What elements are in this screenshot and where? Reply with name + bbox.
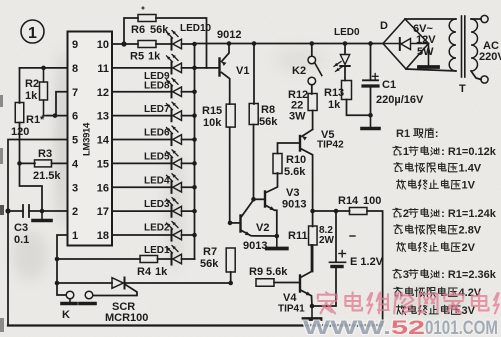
wire pin 17 row: [112, 210, 172, 212]
note line 6: discharge end voltage 2V: [397, 242, 406, 251]
wire pin8 row: [20, 67, 68, 69]
svg-text:12: 12: [97, 87, 109, 99]
ground at V4 emitter: [311, 306, 313, 319]
node V1 emitter on rail: [227, 41, 232, 46]
svg-text:WWW.: WWW.: [303, 318, 391, 337]
wire pin 18 row: [112, 234, 172, 236]
transistor V5 TIP42 base bar: [299, 136, 301, 151]
transformer T secondary winding (right): [471, 19, 478, 71]
wire SCR anode: [57, 282, 112, 284]
wire pin 11 row: [112, 67, 172, 69]
note line 9: discharge end voltage 3V: [397, 305, 406, 314]
capacitor C3 body: [29, 210, 68, 212]
wire pin7 bracket to pin6: [56, 92, 68, 116]
svg-text:D: D: [380, 20, 388, 32]
node V4 emitter / battery negative: [310, 304, 315, 309]
svg-text:9: 9: [72, 39, 78, 51]
svg-text:5.6k: 5.6k: [284, 166, 306, 178]
resistor R12 body: [311, 85, 313, 94]
svg-text:LED8: LED8: [144, 81, 170, 92]
LED LED6: [171, 134, 173, 145]
switch K actuator bar: [69, 299, 71, 303]
wire pin6 row: [47, 115, 68, 117]
svg-text:LED6: LED6: [144, 128, 170, 139]
svg-text:R15: R15: [202, 105, 222, 117]
wire R10 top to V5 base: [278, 143, 301, 154]
node bus LED10: [192, 42, 197, 47]
wire pin5 row to left rail: [8, 140, 68, 326]
node bus LED6: [192, 137, 197, 142]
node R8/V3 base/V2 collector: [251, 197, 256, 202]
node bus LED3: [192, 209, 197, 214]
note line 3: discharge end voltage 1V: [397, 180, 406, 189]
LED5 light arrows: [166, 151, 172, 157]
resistor R13 body: [342, 81, 352, 100]
transistor V3 emitter: [266, 206, 277, 237]
svg-text:R4: R4: [137, 266, 152, 278]
svg-text:10: 10: [97, 39, 109, 51]
wire R13 bottom to C1 bottom node: [347, 100, 371, 116]
note line 5: charge limit voltage 2.8V: [394, 225, 403, 234]
node pin8/R2 junction: [41, 66, 46, 71]
svg-text:LED3: LED3: [144, 199, 170, 210]
top supply rail wire: [195, 43, 384, 45]
svg-text:5W: 5W: [417, 46, 434, 58]
svg-text:2: 2: [72, 206, 78, 218]
LED0 light arrows: [334, 62, 341, 67]
svg-text:9013: 9013: [282, 199, 306, 211]
svg-text:21.5k: 21.5k: [33, 170, 61, 182]
LED LED2: [171, 229, 173, 240]
svg-text:2: 2: [403, 208, 409, 220]
wire LED1 row: [57, 258, 140, 260]
resistor R7 body: [226, 248, 235, 272]
svg-text:56k: 56k: [259, 116, 278, 128]
svg-text:LED4: LED4: [144, 176, 170, 187]
svg-text:11: 11: [97, 63, 109, 75]
figure number 1 (circled): [21, 20, 44, 43]
LED LED3: [171, 206, 173, 217]
svg-text:56k: 56k: [150, 24, 169, 36]
svg-text:: R1=0.12k: : R1=0.12k: [441, 146, 497, 158]
transistor V1 collector: [222, 73, 230, 105]
node bus LED9: [192, 66, 197, 71]
node pin10/R6 junction: [121, 41, 126, 46]
svg-text:9012: 9012: [217, 29, 241, 41]
LED0 body (vertical, pointing down): [344, 44, 346, 55]
svg-text:R8: R8: [261, 104, 275, 116]
LED3 light arrows: [166, 199, 172, 205]
svg-text:3W: 3W: [289, 111, 306, 123]
wire pin 12 row: [112, 91, 172, 93]
svg-text:V3: V3: [286, 187, 299, 199]
svg-text:10k: 10k: [203, 117, 222, 129]
svg-text:LED7: LED7: [144, 104, 170, 115]
transistor V1 emitter (from rail): [222, 44, 230, 62]
wire pin 10 row: [112, 43, 138, 45]
svg-text:K: K: [62, 309, 70, 321]
node bus LED8: [192, 89, 197, 94]
node bus LED2: [192, 233, 197, 238]
node bus LED5: [192, 161, 197, 166]
LED LED7: [171, 110, 173, 121]
resistor R11 body: [312, 211, 314, 227]
transistor V4 TIP41 base bar: [299, 276, 301, 292]
watermark WWW.520101.COM: [303, 318, 498, 337]
note line 4: charge 2 cells: [393, 208, 402, 217]
svg-text:E 1.2V: E 1.2V: [350, 256, 384, 268]
svg-text:8: 8: [72, 63, 78, 75]
svg-text:0.1: 0.1: [14, 234, 29, 246]
watermark chinese row (pink): [318, 292, 337, 313]
svg-text:17: 17: [97, 206, 109, 218]
node C3/ground junction: [40, 209, 45, 214]
node pin1/LED1 row: [55, 257, 60, 262]
svg-text:LED5: LED5: [144, 152, 170, 163]
svg-text:V1: V1: [236, 65, 249, 77]
transistor V3 9013 base bar: [264, 192, 266, 207]
wire pin 14 row: [112, 139, 172, 141]
resistor R2 body: [43, 68, 45, 82]
svg-text:5: 5: [72, 135, 78, 147]
svg-text:R10: R10: [286, 154, 306, 166]
LED9 light arrows: [166, 56, 172, 62]
resistor R5 body: [138, 41, 156, 48]
LED10 light arrows: [166, 32, 172, 38]
LED LED5: [171, 158, 173, 169]
svg-text:R7: R7: [203, 246, 217, 258]
LED6 light arrows: [166, 127, 172, 133]
transformer terminal bottom: [471, 71, 481, 80]
wire pin1 column down to SCR line: [56, 259, 58, 283]
svg-text:TIP42: TIP42: [317, 140, 344, 151]
svg-text:2V: 2V: [462, 242, 476, 254]
svg-text:R9: R9: [249, 266, 263, 278]
SCR gate wire: [93, 285, 137, 296]
svg-text:: R1=1.24k: : R1=1.24k: [441, 208, 497, 220]
svg-text:T: T: [459, 83, 466, 95]
resistor R15 body: [226, 104, 235, 127]
ground at V2/V3 emitters: [276, 236, 278, 249]
svg-text:4: 4: [72, 158, 79, 170]
svg-text:R6: R6: [131, 24, 145, 36]
transistor V2 9013 base bar: [239, 216, 241, 232]
LED1 light arrows: [166, 247, 172, 253]
node SCR line left: [55, 281, 60, 286]
wire R3 junction down to C3 node: [20, 163, 43, 211]
LED bus wire: [194, 44, 196, 260]
node R7/SCR/R9 junction: [228, 281, 233, 286]
svg-text:C1: C1: [382, 79, 396, 91]
svg-text:7: 7: [72, 87, 78, 99]
svg-text:LED2: LED2: [144, 223, 170, 234]
svg-text:2W: 2W: [319, 235, 335, 246]
resistor R6 body and branch wire: [124, 18, 138, 44]
svg-text:9013: 9013: [243, 240, 267, 252]
svg-text:1: 1: [403, 146, 409, 158]
battery E body: [335, 211, 337, 262]
svg-text:LED0: LED0: [334, 27, 360, 38]
transformer T primary winding (left): [449, 19, 456, 71]
resistor R10 body: [273, 154, 282, 174]
bridge rectifier D diamond: [383, 19, 429, 69]
svg-text:12V: 12V: [416, 34, 436, 46]
svg-text:1V: 1V: [462, 179, 476, 191]
wire pin 13 row: [112, 115, 172, 117]
note line 7: charge 3 cells: [393, 269, 402, 278]
svg-text:220V: 220V: [479, 51, 501, 63]
svg-text:6: 6: [72, 111, 78, 123]
note line 8: charge limit voltage 4.2V: [394, 287, 403, 296]
transistor V3 collector: [266, 173, 278, 193]
transistor V2 emitter: [242, 231, 277, 237]
svg-text:120: 120: [11, 126, 29, 138]
resistor R8 body and wire: [253, 44, 255, 105]
node V5 collector / R11 / R14 line: [310, 209, 315, 214]
svg-text:52: 52: [391, 318, 425, 337]
transistor V1 base wire: [207, 67, 220, 69]
svg-text:1: 1: [72, 230, 78, 242]
svg-text:R5: R5: [130, 51, 144, 63]
LED4 light arrows: [166, 175, 172, 181]
transistor V1 9012 base bar: [218, 59, 220, 76]
svg-text:15: 15: [97, 158, 109, 170]
svg-text:3: 3: [72, 182, 78, 194]
svg-text:220µ/16V: 220µ/16V: [376, 94, 424, 106]
svg-text:MCR100: MCR100: [105, 312, 148, 324]
transformer T core: [461, 16, 463, 77]
switch K circles: [66, 291, 74, 299]
svg-text:TIP41: TIP41: [278, 304, 305, 315]
svg-text:R1: R1: [396, 128, 410, 140]
bridge rectifier internal diode: [383, 43, 429, 45]
LED LED8: [171, 86, 173, 97]
LED8 light arrows: [166, 80, 172, 86]
node left rail / C3 line: [5, 208, 10, 213]
resistor R14 body: [349, 208, 367, 215]
SCR V6 MCR100 body: [112, 278, 123, 289]
transistor V2 collector: [242, 200, 254, 217]
note line 1: charge 1 cell: [393, 146, 402, 155]
wire R14 line: [313, 210, 350, 212]
note line 2: charge limit voltage 1.4V: [394, 163, 403, 172]
node LED0 on rail: [343, 41, 348, 46]
wire R14 right down to bottom rail: [367, 211, 383, 326]
wire pin 15 row: [112, 162, 172, 164]
resistor R9 body: [256, 279, 274, 287]
svg-text:: R1=2.36k: : R1=2.36k: [441, 269, 497, 281]
svg-text:1k: 1k: [155, 266, 168, 278]
svg-text:R2: R2: [25, 78, 39, 90]
ground at C1: [370, 115, 372, 128]
transistor V5 collector: [301, 149, 313, 212]
svg-text:1: 1: [28, 25, 37, 42]
svg-text:16: 16: [97, 182, 109, 194]
svg-text:14: 14: [97, 135, 110, 147]
node V2 base junction: [228, 221, 233, 226]
LED LED4: [171, 182, 173, 193]
svg-text:1k: 1k: [148, 51, 161, 63]
wire bridge to transformer bottom: [406, 69, 456, 71]
node K2 on rail: [310, 41, 315, 46]
bottom return rail wire: [8, 324, 383, 326]
resistor R4 body: [140, 256, 158, 263]
svg-text:1k: 1k: [328, 99, 341, 111]
transformer terminal top: [471, 18, 481, 20]
node R8 top on rail: [252, 41, 257, 46]
LED2 light arrows: [166, 223, 172, 229]
svg-text:R14: R14: [338, 195, 359, 207]
svg-text:5.6k: 5.6k: [266, 266, 288, 278]
node bus LED4: [192, 185, 197, 190]
svg-text:R3: R3: [38, 148, 52, 160]
wire R7 bottom to SCR line: [230, 272, 232, 283]
wire switch K to pin1 column: [57, 283, 66, 295]
svg-text:R11: R11: [288, 230, 308, 242]
svg-text:3: 3: [403, 269, 409, 281]
LED LED9: [171, 62, 173, 73]
switch K2 body: [311, 44, 313, 57]
node bus bottom LED1: [194, 258, 196, 260]
svg-text:2.8V: 2.8V: [459, 224, 482, 236]
battery E plus sign: [339, 253, 346, 255]
node C1 top on rail: [368, 41, 373, 46]
svg-text:C3: C3: [14, 222, 28, 234]
node battery top: [334, 209, 339, 214]
transistor V4 collector: [301, 245, 312, 278]
svg-text::: :: [435, 128, 439, 140]
battery E minus sign: [350, 235, 355, 237]
transistor V2 base wire: [230, 222, 241, 224]
wire bridge to transformer top: [405, 18, 456, 20]
svg-text:K2: K2: [292, 65, 306, 77]
IC U1 LM3914 body: [68, 32, 113, 246]
svg-text:V4: V4: [283, 292, 297, 304]
svg-text:R13: R13: [324, 87, 344, 99]
LED LED10: [171, 38, 173, 49]
svg-text:0101.COM: 0101.COM: [425, 318, 498, 337]
capacitor C1 plus sign: [373, 75, 379, 77]
svg-text:V2: V2: [256, 222, 269, 234]
svg-text:100: 100: [363, 195, 381, 207]
transistor V5 emitter (from R12): [302, 129, 313, 136]
LED7 light arrows: [166, 104, 172, 110]
ground at bridge: [428, 44, 430, 68]
resistor R3 body: [20, 162, 36, 164]
ground at C3: [41, 211, 43, 221]
svg-text:13: 13: [97, 111, 109, 123]
capacitor C1 body: [370, 44, 372, 80]
svg-text:1.4V: 1.4V: [459, 162, 482, 174]
svg-text:R1*: R1*: [26, 114, 45, 126]
svg-text:LM3914: LM3914: [82, 122, 93, 156]
svg-text:LED1: LED1: [144, 245, 170, 256]
node R2/pin6/pin7 junction: [53, 113, 58, 118]
svg-text:56k: 56k: [200, 258, 219, 270]
wire battery bottom to V4 emitter node: [312, 269, 336, 307]
transistor V4 emitter: [301, 290, 313, 306]
wire pin1 to LED1 row: [57, 235, 68, 259]
node V2/V3 emitter junction: [275, 234, 280, 239]
node C1 bottom: [368, 113, 373, 118]
resistor R1 body (vertical): [19, 68, 21, 103]
node R1/R3 junction: [17, 161, 22, 166]
node bus LED7: [192, 113, 197, 118]
svg-text:1k: 1k: [25, 90, 38, 102]
transistor V3 base wire: [254, 198, 266, 200]
svg-text:18: 18: [97, 230, 109, 242]
wire pin 16 row: [112, 186, 172, 188]
LED D1 (LED1): [171, 253, 173, 264]
